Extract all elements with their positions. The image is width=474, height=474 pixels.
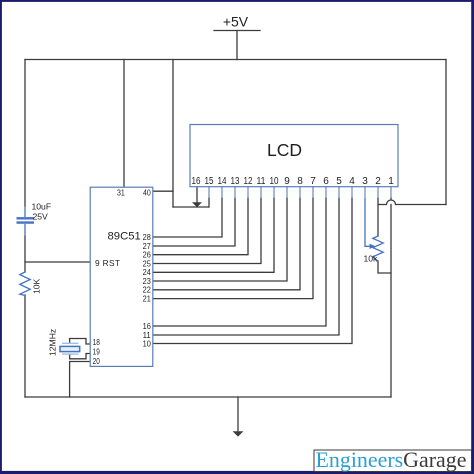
svg-text:20: 20 [93, 356, 100, 366]
svg-text:15: 15 [205, 176, 214, 187]
svg-text:1: 1 [388, 176, 394, 187]
wire RW: pin11 to LCD5 [153, 198, 339, 335]
wire D4: pin25 to LCD11 [153, 198, 261, 264]
potentiometer RV1 wiper wire from LCD pin3 [365, 198, 370, 246]
svg-text:25V: 25V [33, 212, 49, 222]
wire to LCD pin15 [173, 206, 209, 208]
svg-text:4: 4 [349, 176, 355, 187]
svg-text:7: 7 [310, 176, 316, 187]
svg-text:10k: 10k [364, 254, 379, 264]
wire below resistor to ground rail [24, 295, 26, 397]
svg-text:31: 31 [117, 187, 125, 197]
wire ground stem [237, 397, 239, 432]
svg-text:13: 13 [231, 176, 240, 187]
wire pot bottom to pin1 line [378, 261, 391, 273]
LCD module box [190, 125, 398, 187]
wire hop over pin1 to LCD pin2 [378, 200, 446, 204]
+5V supply bar [214, 30, 260, 32]
wire D2: pin23 to LCD9 [153, 198, 287, 281]
wire LCD pin1 above hop [390, 198, 392, 200]
svg-text:10K: 10K [32, 278, 42, 294]
svg-text:12MHz: 12MHz [48, 329, 58, 356]
wire crystal pin19 bracket [70, 354, 91, 359]
wire pin20 to ground rail [70, 362, 91, 398]
svg-text:89C51: 89C51 [108, 231, 141, 243]
svg-text:11: 11 [257, 176, 266, 187]
svg-text:8: 8 [297, 176, 303, 187]
wire D0: pin21 to LCD7 [153, 198, 313, 299]
svg-text:10: 10 [270, 176, 279, 187]
EngineersGarage logo box [314, 450, 472, 472]
wire D1: pin22 to LCD8 [153, 198, 300, 290]
wire pin31 tap from rail [123, 60, 125, 188]
crystal X1 body [60, 346, 80, 351]
capacitor C1 leads [24, 206, 26, 236]
svg-text:2: 2 [375, 176, 381, 187]
wire D3: pin24 to LCD10 [153, 198, 274, 272]
wire below capacitor to resistor [24, 236, 26, 272]
wire +5V drop to rail [236, 31, 238, 60]
resistor R1 10K zigzag [20, 272, 30, 296]
wire LCD pin1 to ground rail [390, 205, 392, 398]
svg-text:16: 16 [192, 176, 201, 187]
wire D7: pin28 to LCD14 [153, 198, 222, 237]
wire left vertical (VCC to reset branch) [24, 60, 26, 207]
svg-text:21: 21 [143, 293, 152, 303]
potentiometer RV1 10k body [373, 236, 383, 261]
wire pin40 to rail tap [153, 190, 173, 192]
labels LCD pin numbers [192, 176, 395, 187]
capacitor C1 10uF plates [17, 218, 35, 222]
potentiometer RV1 wiper arrow [370, 244, 376, 249]
svg-text:EngineersGarage: EngineersGarage [316, 447, 467, 472]
ground arrow bottom [233, 431, 244, 436]
svg-text:14: 14 [218, 176, 227, 187]
wire LCD pin16 drop [196, 187, 198, 202]
wire D5: pin26 to LCD12 [153, 198, 248, 255]
svg-text:3: 3 [362, 176, 368, 187]
svg-text:9 RST: 9 RST [95, 258, 120, 268]
wire top +5V rail [25, 59, 446, 61]
svg-text:12: 12 [244, 176, 253, 187]
svg-text:10: 10 [143, 338, 152, 348]
wire EN: pin16 to LCD6 [153, 198, 326, 326]
svg-text:5: 5 [336, 176, 342, 187]
wire right vertical from rail [445, 60, 447, 205]
wire bottom ground rail [25, 396, 391, 398]
wire RST to 89C51 pin 9 [25, 261, 90, 263]
wire RS: pin10 to LCD4 [153, 198, 352, 344]
wire crystal pin18 bracket [70, 339, 91, 345]
ground arrow LCD pin16 [192, 202, 202, 207]
LCD pin stubs [209, 187, 391, 198]
svg-text:LCD: LCD [267, 140, 302, 160]
svg-text:9: 9 [284, 176, 290, 187]
wire LCD pin15 stub lower [208, 198, 210, 207]
svg-text:6: 6 [323, 176, 329, 187]
wire D6: pin27 to LCD13 [153, 198, 235, 246]
svg-text:40: 40 [143, 187, 151, 197]
IC U1 89C51 box [90, 187, 153, 366]
wire LCD pin2 down to pot top [377, 198, 379, 236]
crystal X1 plates [62, 343, 78, 354]
svg-text:+5V: +5V [223, 14, 249, 30]
svg-text:10uF: 10uF [32, 202, 52, 212]
wire rail tap down at x=173 [172, 60, 174, 208]
